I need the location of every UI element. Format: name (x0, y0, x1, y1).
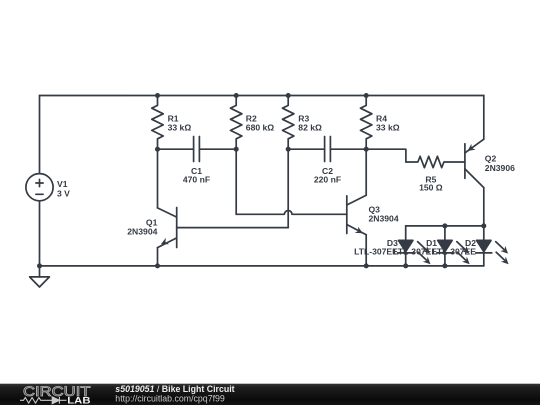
svg-text:2N3906: 2N3906 (485, 163, 515, 173)
node dot R3 bottom (286, 147, 291, 152)
transistor Q3 2N3904 (347, 195, 366, 234)
wire R1 bottom to Q1 collector (157, 149, 159, 208)
wire R4 bottom to R5 (366, 149, 406, 162)
svg-text:220 nF: 220 nF (314, 175, 341, 185)
wire cap rail left: C1 to R2 bottom (199, 148, 236, 150)
svg-text:33 kΩ: 33 kΩ (376, 123, 400, 133)
svg-text:3 V: 3 V (57, 188, 70, 198)
svg-text:http://circuitlab.com/cpq7f99: http://circuitlab.com/cpq7f99 (115, 394, 225, 404)
wire R4 bottom to Q3 collector (365, 149, 367, 195)
svg-text:680 kΩ: 680 kΩ (246, 123, 275, 133)
svg-text:470 nF: 470 nF (183, 175, 210, 185)
svg-text:s5019051 / Bike Light Circuit: s5019051 / Bike Light Circuit (115, 384, 234, 394)
wire LED top bus (406, 225, 484, 227)
resistor R2 680 k (231, 96, 242, 150)
CircuitLab logo resistor-diode glyph (20, 397, 67, 404)
wire cap rail right: C2 to R4 bottom (330, 148, 366, 150)
node dot D3 cathode / ground rail (403, 263, 408, 268)
node dot V+ rail / R1 (155, 93, 160, 98)
svg-text:LAB: LAB (67, 395, 90, 405)
node dot V+ rail / R4 (364, 93, 369, 98)
label R1 value (168, 113, 192, 132)
label Q3 value (369, 205, 399, 224)
CircuitLab logo CIRCUIT (23, 384, 91, 399)
resistor R5 150 ohm (406, 156, 465, 167)
capacitor C1 470 nF (194, 137, 200, 162)
wire bottom ground rail (40, 265, 484, 267)
node dot R1 bottom (155, 147, 160, 152)
svg-text:82 kΩ: 82 kΩ (298, 123, 322, 133)
svg-text:LTL-307EE: LTL-307EE (354, 247, 398, 257)
footer bar (0, 384, 540, 405)
ground (30, 266, 50, 287)
wire R3 bottom down (287, 149, 289, 227)
svg-text:LTL-307EE: LTL-307EE (393, 247, 437, 257)
wire cap rail left: R1 bottom to C1 (158, 148, 194, 150)
wire cap rail right: R3 bottom to C2 (288, 148, 324, 150)
resistor R4 33 k (361, 96, 372, 150)
voltage source V1 3 V (26, 174, 53, 201)
node dot R4 bottom (364, 147, 369, 152)
wire top V+ rail (40, 95, 484, 97)
label R3 value (298, 113, 322, 132)
node dot LED bus / Q2 collector (481, 223, 486, 228)
resistor R3 82 k (283, 96, 294, 150)
node dot V+ rail / R3 (286, 93, 291, 98)
wire node C to Q1 base (177, 227, 289, 229)
label V1 value (57, 179, 70, 198)
svg-text:2N3904: 2N3904 (127, 226, 157, 236)
footer url text (115, 394, 225, 404)
label Q1 value (127, 218, 157, 237)
svg-text:LTL-307EE: LTL-307EE (432, 247, 476, 257)
label R2 value (246, 113, 275, 132)
node dot V+ rail / R2 (234, 93, 239, 98)
wire R2 bottom down (235, 149, 237, 214)
label R4 value (376, 113, 400, 132)
LED D1 LTL-307EE (437, 226, 470, 266)
node dot R2 bottom (234, 147, 239, 152)
label R5 value (419, 174, 443, 192)
transistor Q2 2N3906 (465, 139, 484, 187)
label C2 value (314, 166, 341, 185)
resistor R1 33 k (152, 96, 163, 150)
capacitor C2 220 nF (325, 137, 331, 162)
LED D3 LTL-307EE (398, 226, 431, 266)
node dot Q1 emitter / ground rail (155, 263, 160, 268)
wire Q2 emitter drop from V+ rail (483, 96, 485, 140)
svg-text:33 kΩ: 33 kΩ (168, 123, 192, 133)
transistor Q1 2N3904 (158, 208, 177, 248)
footer title text (115, 384, 234, 394)
wire Q1 emitter to ground rail (157, 248, 159, 266)
node dot Q3 emitter / ground rail (364, 263, 369, 268)
node dot D1 cathode / ground rail (442, 263, 447, 268)
wire V1 top to rail (39, 96, 41, 174)
node dot LED bus / D1 anode (442, 223, 447, 228)
svg-text:150 Ω: 150 Ω (419, 183, 443, 193)
node dot ground / V1 (37, 263, 42, 268)
wire Q3 emitter to ground rail (365, 235, 367, 266)
LED D2 LTL-307EE (476, 226, 509, 266)
svg-text:2N3904: 2N3904 (369, 213, 399, 223)
wire V1 bottom to ground rail (39, 201, 41, 266)
label C1 value (183, 166, 210, 185)
label D1 value (393, 238, 437, 256)
label Q2 value (485, 153, 515, 172)
label D3 value (354, 238, 398, 256)
wire node B to Q3 base (hop over vertical) (236, 211, 347, 215)
label D2 value (432, 238, 476, 256)
CircuitLab logo LAB (67, 395, 90, 405)
wire Q2 collector to LED bus (483, 188, 485, 226)
